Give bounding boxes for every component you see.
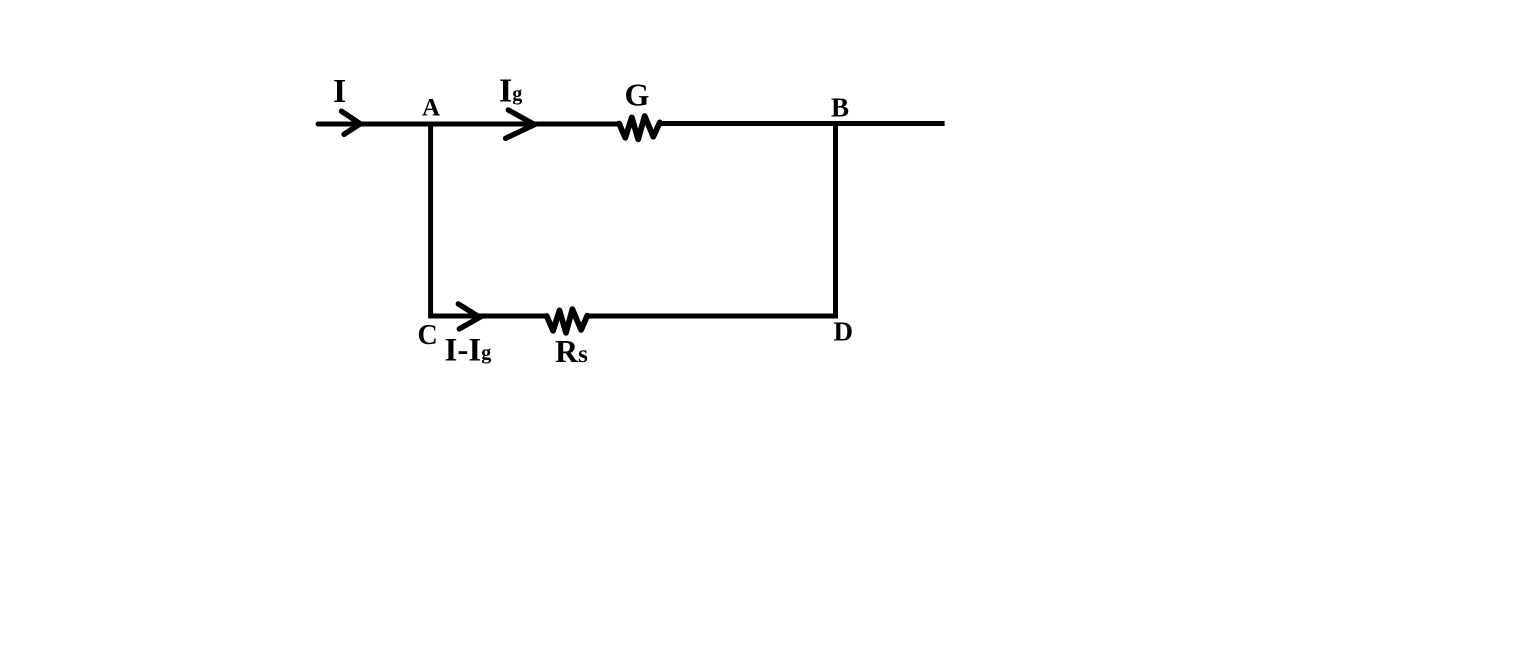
wire: node A vertical down to C and bottom-left segment to Rs (431, 122, 547, 316)
resistor Rs zigzag (547, 309, 588, 333)
arrow: current Ig after node A (506, 110, 535, 138)
svg-text:Ig: Ig (499, 73, 522, 110)
wire: top wire left segment (input to G) (318, 122, 620, 127)
arrow: current I-Ig on shunt branch (458, 304, 480, 329)
svg-text:A: A (422, 95, 440, 122)
svg-text:I: I (333, 73, 346, 110)
svg-text:I-Ig: I-Ig (445, 333, 492, 369)
wire: bottom segment Rs to D and node B vertical (587, 122, 836, 316)
svg-text:D: D (834, 317, 854, 347)
resistor G zigzag (619, 116, 660, 139)
svg-text:Rs: Rs (555, 333, 588, 369)
svg-text:G: G (625, 77, 650, 113)
svg-text:B: B (831, 93, 849, 123)
arrow: current I on input wire (342, 111, 361, 134)
wire: top wire right segment (G to B and beyond) (659, 121, 945, 126)
svg-text:C: C (418, 320, 438, 351)
